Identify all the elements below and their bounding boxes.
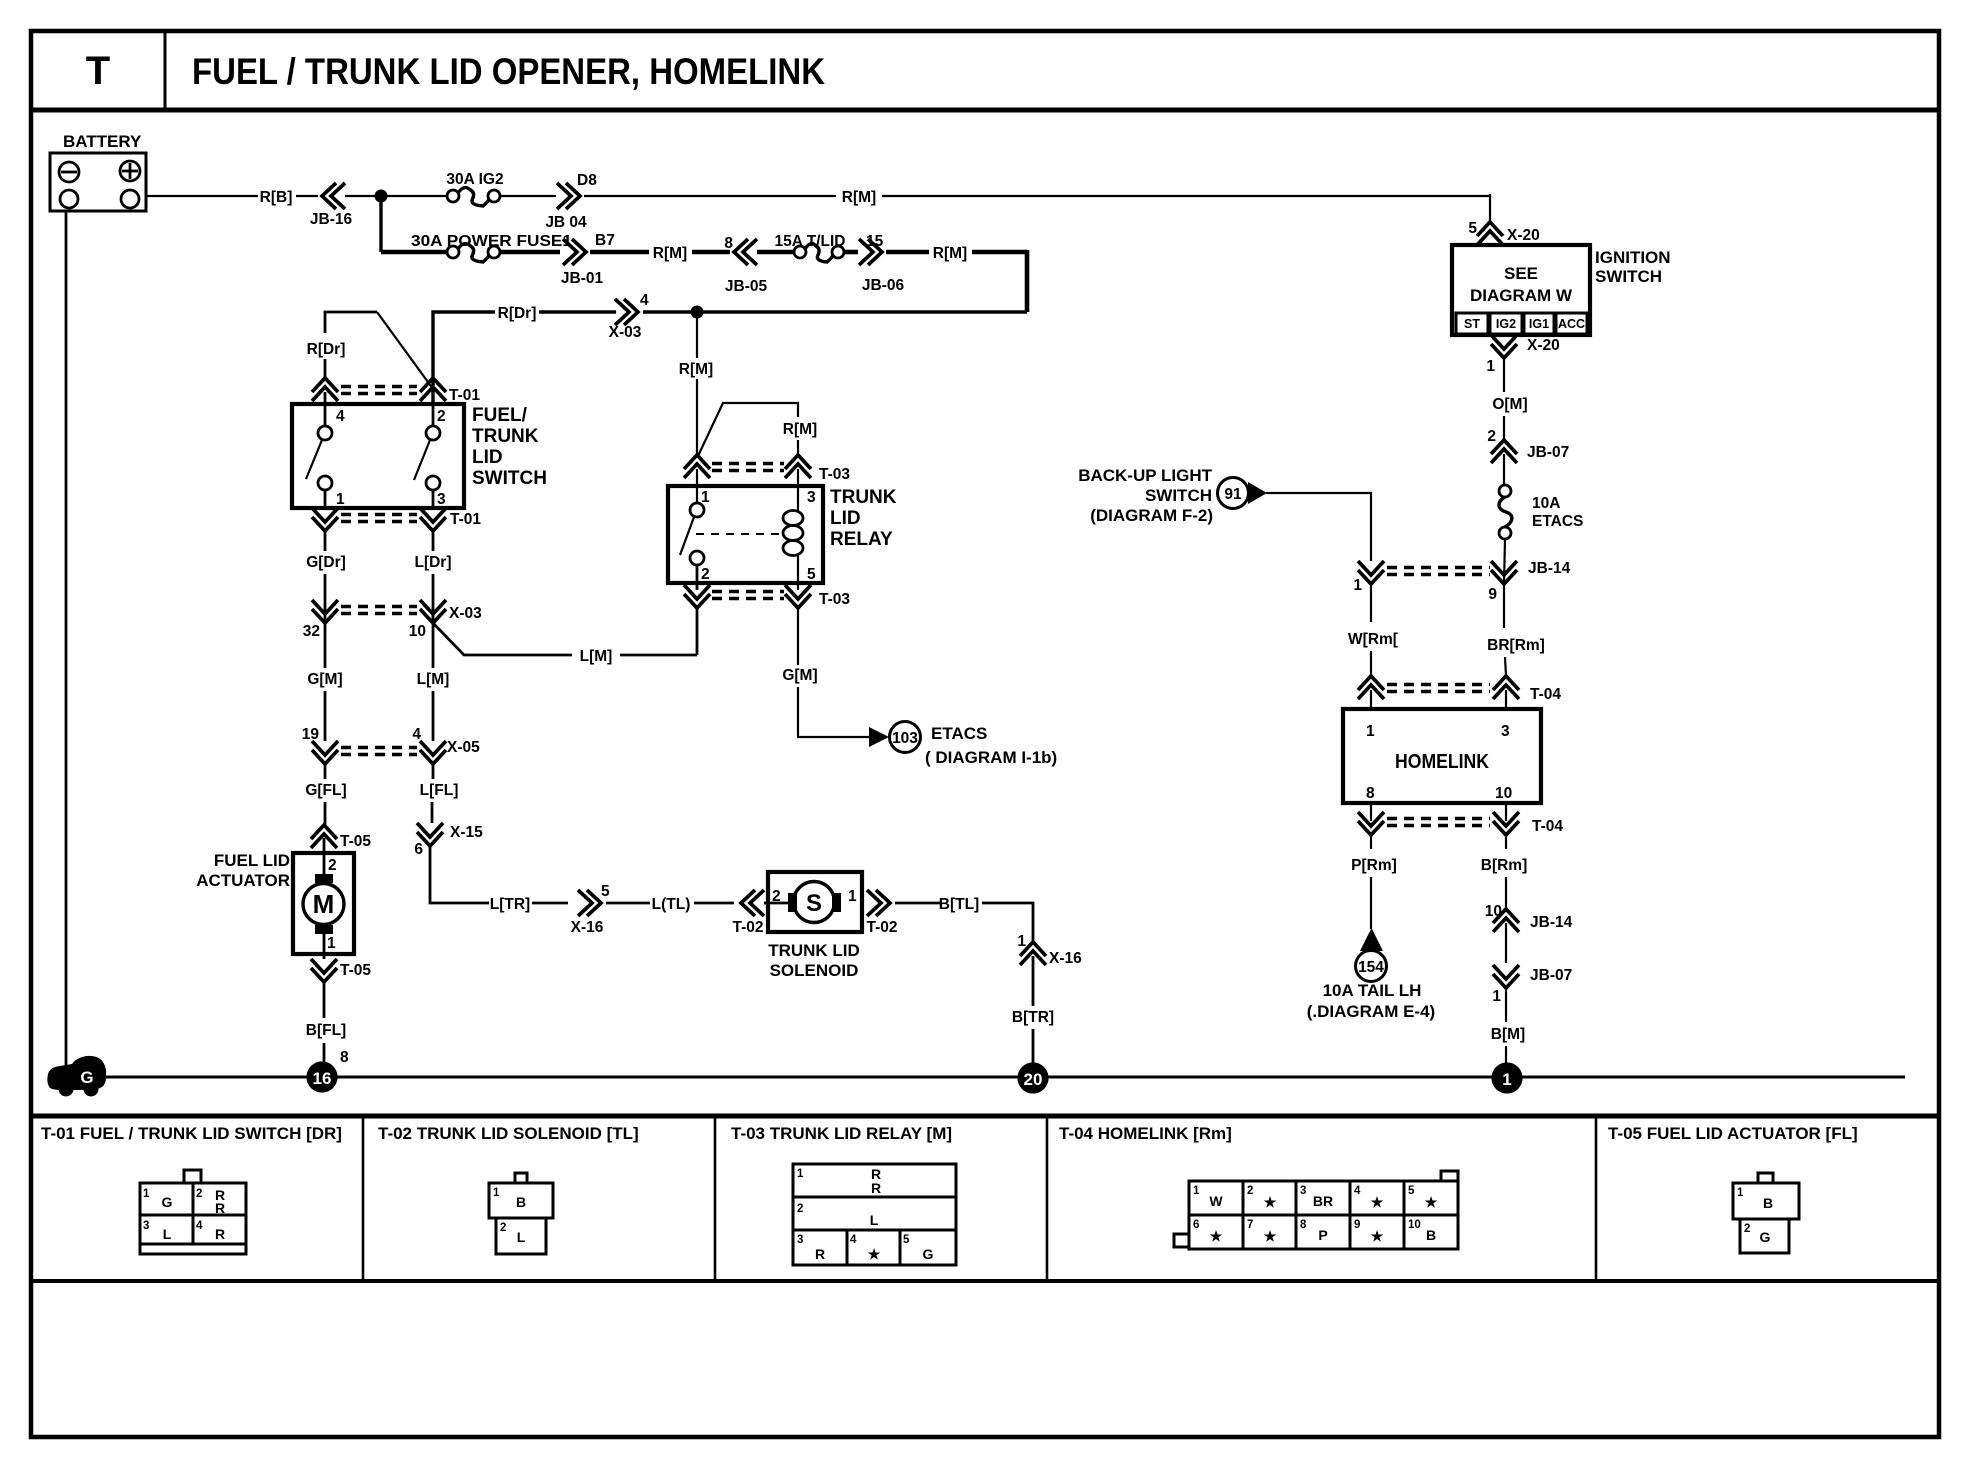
ignition switch name: [1595, 248, 1671, 286]
svg-text:T: T: [86, 49, 110, 93]
svg-text:L(TL): L(TL): [652, 896, 691, 913]
svg-text:TRUNK: TRUNK: [472, 426, 539, 447]
svg-text:BR: BR: [1313, 1193, 1333, 1209]
svg-text:1: 1: [797, 1168, 804, 1180]
relay contact bottom: [690, 551, 704, 565]
wire JB-05 to fuse T/LID: [757, 250, 794, 255]
svg-text:8: 8: [340, 1049, 349, 1066]
wire R[M] to JB-05: [692, 250, 730, 255]
svg-text:W[Rm[: W[Rm[: [1348, 631, 1398, 648]
switch pin 4 lead: [324, 404, 327, 426]
wire B[M]: [1505, 988, 1507, 1022]
wire junction to fuse: [381, 250, 447, 255]
motor terminal top: [315, 874, 333, 883]
svg-text:2: 2: [437, 408, 446, 425]
svg-text:2: 2: [1744, 1223, 1750, 1235]
wire battery negative to ground: [65, 211, 68, 1066]
arrow to ETACS: [869, 727, 889, 747]
svg-text:B: B: [516, 1194, 526, 1210]
ETACS label: [925, 724, 1057, 767]
svg-text:L[M]: L[M]: [417, 671, 450, 688]
svg-text:1: 1: [701, 489, 710, 506]
svg-text:★: ★: [1371, 1194, 1384, 1210]
wire T-02 to solenoid: [764, 902, 788, 905]
svg-text:T-04 HOMELINK [Rm]: T-04 HOMELINK [Rm]: [1059, 1124, 1232, 1143]
svg-text:2: 2: [500, 1222, 506, 1234]
ignition switch box: [1452, 245, 1590, 335]
relay pin 2 lead: [696, 565, 699, 590]
ground symbol G car: [47, 1056, 106, 1097]
wire G[FL]: [324, 764, 327, 779]
svg-text:★: ★: [1425, 1194, 1438, 1210]
svg-text:5: 5: [807, 566, 816, 583]
svg-text:3: 3: [1501, 723, 1510, 740]
wire B[TL]: [895, 902, 940, 905]
ground node 1 redraw: [1492, 1063, 1523, 1094]
connector JB-14 pin 10: [1485, 903, 1573, 932]
svg-text:T-03: T-03: [819, 591, 850, 608]
connector T-01 pin 1: [312, 517, 338, 531]
svg-text:R[B]: R[B]: [260, 189, 293, 206]
title bar bottom rule: [31, 108, 1939, 113]
svg-text:1: 1: [1492, 988, 1501, 1005]
connector X-03 pin 32: [312, 609, 338, 623]
connector X-20 pin 5: [1468, 220, 1539, 245]
svg-text:P: P: [1318, 1227, 1327, 1243]
connector X-16 pin 5: [571, 883, 610, 936]
svg-text:9: 9: [1488, 586, 1497, 603]
connector X-03 joining line: [341, 605, 417, 609]
svg-text:G: G: [162, 1194, 173, 1210]
svg-text:B7: B7: [595, 232, 615, 249]
svg-text:SWITCH: SWITCH: [472, 468, 547, 489]
T-04 connector face: [1174, 1171, 1458, 1249]
svg-text:7: 7: [1247, 1219, 1253, 1231]
svg-text:M: M: [313, 889, 335, 919]
svg-text:5: 5: [903, 1234, 910, 1246]
svg-text:P[Rm]: P[Rm]: [1351, 857, 1397, 874]
switch pin 1 lead: [324, 490, 327, 508]
connector T-03 pin 5: [785, 594, 811, 608]
svg-text:4: 4: [412, 726, 421, 743]
band divider T-03/T-04: [1046, 1116, 1049, 1281]
svg-text:154: 154: [1358, 959, 1384, 976]
svg-text:JB-01: JB-01: [561, 270, 604, 287]
svg-text:L: L: [517, 1229, 526, 1245]
svg-text:T-05: T-05: [340, 962, 371, 979]
wire chevrons into homelink: [1370, 690, 1372, 709]
circuit ref 154: [1356, 951, 1387, 982]
wire R[M] to ignition drop: [882, 195, 1490, 197]
svg-text:R: R: [215, 1200, 225, 1216]
svg-text:B: B: [1763, 1195, 1773, 1211]
solenoid S: [794, 882, 835, 923]
svg-text:T-02 TRUNK LID SOLENOID [TL]: T-02 TRUNK LID SOLENOID [TL]: [378, 1124, 639, 1143]
svg-text:4: 4: [336, 408, 345, 425]
wire L(TL): [606, 902, 650, 905]
branch L[M] to relay: [433, 623, 572, 655]
fuel lid actuator box: [293, 853, 354, 954]
connector T-03 pin 3: [785, 455, 811, 469]
connector T-03 joining line: [712, 590, 784, 594]
switch blade right: [414, 440, 430, 480]
svg-text:1: 1: [1486, 358, 1495, 375]
wire G[M] to ETACS: [797, 608, 799, 665]
wire fuse to JB-06: [844, 250, 858, 255]
connector T-04 joining line: [1387, 683, 1490, 687]
homelink box: [1343, 709, 1541, 803]
connector T-01 joining line: [341, 513, 417, 517]
wire B[Rm]: [1505, 835, 1507, 849]
wire battery to R[B]: [146, 195, 258, 197]
svg-text:FUEL LID: FUEL LID: [214, 851, 290, 870]
svg-text:X-03: X-03: [609, 324, 642, 341]
connector T-02 pin 2: [732, 890, 764, 936]
connector JB-05 pin 8: [724, 235, 767, 295]
svg-text:X-03: X-03: [449, 605, 482, 622]
trunk lid solenoid box: [768, 872, 862, 932]
svg-text:R: R: [815, 1246, 825, 1262]
wire JB-16 to junction: [345, 195, 378, 197]
connector X-03 pin 4: [609, 292, 649, 341]
connector T-03 pin 2: [684, 594, 710, 608]
ground rail: [62, 1076, 1905, 1079]
svg-text:B[FL]: B[FL]: [306, 1022, 346, 1039]
wire R[M] label to T-03: [696, 379, 698, 455]
svg-text:103: 103: [892, 730, 918, 747]
svg-text:★: ★: [1264, 1194, 1277, 1210]
svg-text:BACK-UP LIGHT: BACK-UP LIGHT: [1078, 466, 1212, 485]
wire R[M] drop to relay: [696, 312, 698, 358]
actuator pin 1 lead: [323, 933, 326, 959]
connector JB-06 pin 15: [859, 233, 904, 294]
wire L[TR] corner: [430, 846, 489, 903]
svg-text:2: 2: [701, 566, 710, 583]
fuse 30A POWER FUSE1: [447, 246, 459, 258]
svg-text:X-20: X-20: [1527, 337, 1560, 354]
svg-text:1: 1: [1017, 933, 1026, 950]
svg-text:G: G: [80, 1068, 93, 1087]
fuse 30A IG2: [446, 171, 503, 206]
svg-text:R[M]: R[M]: [653, 245, 687, 262]
svg-text:BR[Rm]: BR[Rm]: [1487, 637, 1545, 654]
junction node R[M] drop: [691, 306, 704, 319]
wire fuse to D8: [500, 195, 556, 197]
svg-text:B[Rm]: B[Rm]: [1481, 857, 1528, 874]
svg-text:4: 4: [850, 1234, 857, 1246]
svg-text:32: 32: [303, 623, 320, 640]
svg-text:1: 1: [327, 935, 336, 952]
svg-text:X-05: X-05: [447, 739, 480, 756]
connector X-20 pin 1: [1486, 335, 1559, 375]
motor terminal bottom: [315, 925, 333, 934]
wire W[Rm]: [1370, 584, 1372, 622]
connector T-04 pin 3: [1493, 676, 1519, 690]
svg-text:L: L: [163, 1226, 172, 1242]
relay actuation dashed line: [696, 533, 786, 535]
actuator name label: [196, 851, 290, 890]
svg-text:LID: LID: [830, 508, 861, 529]
svg-text:G[M]: G[M]: [307, 671, 342, 688]
svg-text:10: 10: [409, 623, 426, 640]
wire B[TR]: [1032, 956, 1035, 1006]
connector T-01 pin 4: [312, 378, 338, 392]
svg-text:ST: ST: [1464, 317, 1480, 331]
band divider T-02/T-03: [714, 1116, 717, 1281]
connector X-16 pin 1: [1017, 933, 1082, 967]
wire D8 to R[M]: [584, 195, 836, 197]
wire R[M] to corner: [972, 250, 1027, 255]
svg-text:JB 04: JB 04: [545, 214, 587, 231]
svg-text:6: 6: [1193, 1219, 1199, 1231]
svg-text:10: 10: [1495, 785, 1512, 802]
svg-text:W: W: [1209, 1193, 1223, 1209]
svg-text:L[M]: L[M]: [580, 648, 613, 665]
wire JB-14 to JB-07: [1505, 923, 1507, 963]
svg-text:T-05: T-05: [340, 833, 371, 850]
band divider T-01/T-02: [362, 1116, 365, 1281]
svg-text:1: 1: [493, 1187, 500, 1199]
svg-text:L[Dr]: L[Dr]: [414, 554, 451, 571]
svg-text:1: 1: [848, 888, 857, 905]
svg-text:T-04: T-04: [1532, 818, 1563, 835]
tail fuse label: [1307, 981, 1435, 1021]
wire homelink pins to chevrons: [1370, 803, 1372, 821]
svg-text:JB-07: JB-07: [1530, 967, 1572, 984]
svg-text:ACTUATOR: ACTUATOR: [196, 871, 290, 890]
svg-text:( DIAGRAM I-1b): ( DIAGRAM I-1b): [925, 748, 1057, 767]
svg-text:G[M]: G[M]: [782, 667, 817, 684]
wire chevron to box: [324, 392, 327, 404]
svg-text:2: 2: [772, 888, 781, 905]
arrow to tail fuse: [1360, 928, 1383, 951]
switch contact pin 4: [318, 426, 332, 440]
svg-text:16: 16: [313, 1069, 332, 1088]
ignition cells ST IG2 IG1 ACC: [1456, 313, 1587, 334]
svg-text:HOMELINK: HOMELINK: [1395, 750, 1489, 773]
svg-text:B: B: [1426, 1227, 1436, 1243]
wire junction to fuse IG2: [381, 195, 447, 197]
svg-text:ETACS: ETACS: [931, 724, 987, 743]
svg-text:8: 8: [1300, 1219, 1307, 1231]
connector X-05 joining line: [341, 746, 417, 750]
switch pin 3 lead: [432, 490, 435, 508]
svg-text:T-04: T-04: [1530, 686, 1561, 703]
svg-text:X-20: X-20: [1507, 227, 1540, 244]
connector band top rule: [31, 1114, 1939, 1119]
connector T-03 pin 1: [684, 455, 710, 469]
fuel/trunk lid switch box: [292, 404, 464, 508]
relay pin 1 lead: [696, 469, 698, 503]
connector T-01 pin 2: [420, 378, 446, 392]
wire R[B] to JB-16: [296, 195, 318, 197]
svg-text:R[Dr]: R[Dr]: [498, 305, 537, 322]
connector X-05 pin 4: [420, 750, 446, 764]
connector T-01 pin 3: [420, 517, 446, 531]
relay pin 3 lead: [797, 469, 799, 511]
wire P[Rm]: [1370, 835, 1372, 849]
svg-text:91: 91: [1224, 486, 1242, 503]
svg-text:X-16: X-16: [571, 919, 604, 936]
svg-text:2: 2: [797, 1203, 803, 1215]
svg-text:T-02: T-02: [866, 919, 897, 936]
svg-text:10: 10: [1485, 903, 1502, 920]
wire O[M]: [1503, 358, 1505, 392]
fuse 10A ETACS: [1499, 485, 1583, 539]
svg-text:B[M]: B[M]: [1491, 1026, 1525, 1043]
svg-text:30A IG2: 30A IG2: [446, 171, 503, 188]
wire G[Dr]: [324, 531, 327, 551]
switch contact pin 1: [318, 476, 332, 490]
connector T-04 joining line: [1387, 817, 1490, 821]
connector T-05 pin 1: [311, 959, 371, 982]
ground node 16 redraw: [307, 1062, 338, 1093]
wire 91 to W[Rm] branch: [1266, 493, 1371, 561]
connector JB-14 pin 9: [1488, 560, 1570, 603]
svg-text:1: 1: [143, 1188, 150, 1200]
svg-text:1: 1: [1737, 1187, 1744, 1199]
connector T-01 joining line: [341, 385, 417, 389]
connector X-15 pin 6: [414, 823, 483, 858]
svg-text:G[FL]: G[FL]: [305, 782, 346, 799]
connector JB-14 pin 1: [1353, 561, 1384, 594]
svg-text:R: R: [871, 1180, 881, 1196]
connector band bottom rule: [31, 1279, 1939, 1283]
connector T-04 pin 1: [1358, 676, 1384, 690]
switch blade left: [306, 440, 322, 479]
svg-text:X-15: X-15: [450, 824, 483, 841]
svg-text:R: R: [215, 1226, 225, 1242]
connector JB-14 joining line: [1387, 566, 1490, 570]
svg-text:3: 3: [797, 1234, 803, 1246]
svg-text:S: S: [806, 890, 822, 917]
solenoid terminal left: [788, 893, 797, 912]
svg-text:JB-14: JB-14: [1528, 560, 1571, 577]
relay coil: [783, 511, 803, 556]
svg-text:1: 1: [1502, 1070, 1511, 1089]
svg-text:4: 4: [196, 1220, 203, 1232]
wire L[FL]: [432, 764, 435, 779]
actuator pin 2 lead: [323, 838, 326, 877]
svg-text:5: 5: [601, 883, 610, 900]
arrow from 91: [1248, 482, 1267, 504]
svg-text:JB-07: JB-07: [1527, 444, 1569, 461]
svg-text:L[FL]: L[FL]: [420, 782, 459, 799]
svg-text:DIAGRAM W: DIAGRAM W: [1470, 286, 1573, 305]
solenoid name label: [768, 941, 860, 980]
svg-text:IGNITION: IGNITION: [1595, 248, 1671, 267]
svg-text:9: 9: [1354, 1219, 1360, 1231]
wire drop to X-20: [1489, 194, 1491, 222]
svg-text:R[Dr]: R[Dr]: [307, 341, 346, 358]
svg-text:R[M]: R[M]: [933, 245, 967, 262]
svg-text:D8: D8: [577, 172, 597, 189]
svg-text:3: 3: [807, 489, 816, 506]
wire R[Dr] row left end down to switch pin 2: [433, 312, 495, 404]
wire to fuse: [1503, 454, 1505, 485]
svg-text:★: ★: [868, 1246, 881, 1262]
svg-text:G[Dr]: G[Dr]: [306, 554, 346, 571]
svg-text:20: 20: [1024, 1070, 1043, 1089]
trunk lid relay box: [668, 486, 823, 583]
connector B7 / JB-01: [561, 232, 615, 287]
svg-text:FUEL/: FUEL/: [472, 405, 528, 426]
wire X-03 to junction: [643, 310, 1027, 313]
wire JB-06 to R[M]: [886, 250, 929, 255]
connector JB-07 pin 1: [1492, 965, 1572, 1005]
wire R[Dr] to X-03: [539, 310, 616, 313]
svg-text:★: ★: [1264, 1228, 1277, 1244]
svg-text:T-01 FUEL / TRUNK LID SWITCH [: T-01 FUEL / TRUNK LID SWITCH [DR]: [41, 1124, 342, 1143]
svg-text:1: 1: [1366, 723, 1375, 740]
svg-text:1: 1: [1353, 577, 1362, 594]
svg-text:8: 8: [1366, 785, 1375, 802]
band divider T-04/T-05: [1595, 1116, 1598, 1281]
svg-text:O[M]: O[M]: [1492, 396, 1527, 413]
svg-text:6: 6: [414, 841, 423, 858]
connector T-03 joining line: [712, 462, 784, 466]
wire B7 to R[M]: [590, 250, 649, 255]
T-02 connector face: [489, 1173, 553, 1254]
wire L[Dr]: [432, 531, 435, 551]
solenoid terminal right: [832, 893, 841, 912]
svg-text:10: 10: [1408, 1219, 1421, 1231]
junction node: [375, 190, 388, 203]
svg-text:8: 8: [724, 235, 733, 252]
svg-text:JB-14: JB-14: [1530, 914, 1573, 931]
svg-text:L: L: [870, 1212, 879, 1228]
wire B[FL]: [323, 982, 326, 1018]
svg-text:ETACS: ETACS: [1532, 513, 1583, 530]
svg-text:IG2: IG2: [1496, 317, 1516, 331]
svg-text:5: 5: [1408, 1185, 1415, 1197]
title bar divider: [164, 31, 167, 110]
svg-text:2: 2: [196, 1188, 202, 1200]
svg-text:IG1: IG1: [1529, 317, 1549, 331]
svg-text:10A TAIL LH: 10A TAIL LH: [1323, 981, 1422, 1000]
svg-text:B[TL]: B[TL]: [939, 896, 979, 913]
switch name label: [472, 405, 547, 489]
svg-text:5: 5: [1468, 220, 1477, 237]
fuse 15A T/LID: [775, 233, 846, 262]
wire fuse to B7: [500, 250, 560, 255]
svg-text:19: 19: [302, 726, 320, 743]
relay blade: [680, 517, 694, 555]
T-05 connector face: [1733, 1173, 1799, 1253]
svg-text:SOLENOID: SOLENOID: [770, 961, 859, 980]
svg-text:3: 3: [1300, 1185, 1306, 1197]
svg-text:(.DIAGRAM E-4): (.DIAGRAM E-4): [1307, 1002, 1435, 1021]
wire G[M]: [324, 623, 327, 668]
svg-text:TRUNK: TRUNK: [830, 487, 897, 508]
svg-text:SWITCH: SWITCH: [1595, 267, 1662, 286]
svg-text:TRUNK LID: TRUNK LID: [768, 941, 860, 960]
wire corner down to R[Dr] row: [1025, 250, 1030, 312]
branch stub to switch pin 4: [325, 312, 377, 333]
svg-text:4: 4: [1354, 1185, 1361, 1197]
svg-text:JB-06: JB-06: [862, 277, 905, 294]
svg-text:BATTERY: BATTERY: [63, 132, 142, 151]
switch pin 2 lead: [432, 404, 435, 426]
svg-text:★: ★: [1210, 1228, 1223, 1244]
connector T-04 pin 8: [1358, 821, 1384, 835]
svg-text:B[TR]: B[TR]: [1012, 1009, 1054, 1026]
svg-text:★: ★: [1371, 1228, 1384, 1244]
svg-text:15: 15: [866, 233, 884, 250]
svg-text:4: 4: [640, 292, 649, 309]
switch contact pin 2: [426, 426, 440, 440]
svg-text:R[M]: R[M]: [842, 189, 876, 206]
